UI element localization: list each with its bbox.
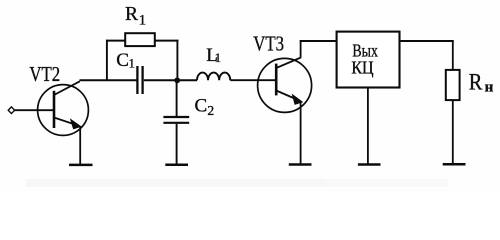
transistor VT3 [258,57,312,112]
transistor VT2 [38,81,89,135]
svg-text:2: 2 [207,103,214,118]
ground (VT2) [69,164,93,167]
wire Rn to ground [452,100,454,164]
wire L1 to VT3 base [230,79,276,81]
resistor Rn [446,70,460,100]
wire C2 to ground [176,124,178,165]
block Вых КЦ [337,32,400,88]
svg-text:1: 1 [129,57,135,71]
wire VT3 collector up [300,40,302,57]
wire top rail to block [300,40,337,42]
capacitor C1 [137,66,142,94]
svg-text:R: R [125,4,138,25]
svg-text:VT2: VT2 [29,62,60,86]
ground (C2) [165,163,188,166]
ground (VT3) [289,163,312,166]
inductor L1 [197,73,230,81]
resistor R1 [125,33,155,46]
wire base lead VT2 [15,109,54,111]
wire VT3 emitter to ground [300,102,302,165]
svg-text:н: н [485,79,494,95]
svg-text:C: C [116,50,129,71]
wire right vertical of RC section [176,40,178,81]
wire top rail right [155,40,179,42]
input terminal [8,107,15,114]
capacitor C2 [163,117,189,123]
wire down to Rn [452,40,454,70]
node junction dot [174,77,180,83]
wire block bottom lead [367,88,369,165]
wire left vertical of RC section [106,40,108,81]
wire node down to C2 [176,81,178,117]
faint scan artifact band [26,179,326,187]
wire VT2 emitter to ground [79,126,81,165]
ground (Rn) [443,163,466,166]
wire top rail left [106,40,125,42]
svg-text:1: 1 [215,51,221,65]
wire top rail right of block [400,40,454,42]
svg-text:1: 1 [139,12,147,28]
svg-text:VT3: VT3 [253,32,284,56]
ground (block) [358,163,381,166]
svg-text:C: C [195,95,208,116]
wire collector node to C1 [80,79,137,81]
wire C1 to node [144,79,197,81]
svg-text:КЦ: КЦ [351,58,373,78]
svg-text:R: R [469,70,483,96]
